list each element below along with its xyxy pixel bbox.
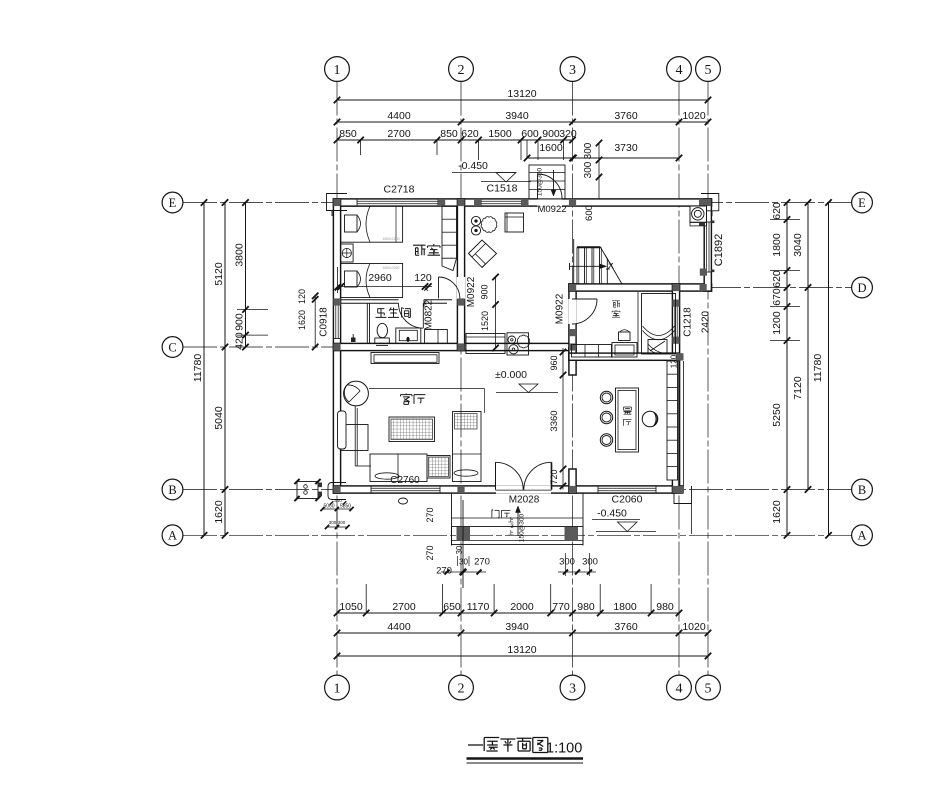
svg-text:300: 300 xyxy=(338,520,346,525)
svg-text:A: A xyxy=(168,529,177,543)
svg-text:770: 770 xyxy=(552,601,570,613)
svg-text:3940: 3940 xyxy=(505,621,529,633)
svg-text:1620: 1620 xyxy=(213,500,225,524)
svg-text:C2060: C2060 xyxy=(612,494,643,506)
svg-text:980: 980 xyxy=(577,601,595,613)
svg-text:900: 900 xyxy=(480,284,490,299)
svg-text:1020: 1020 xyxy=(682,110,706,122)
svg-text:C2718: C2718 xyxy=(384,184,415,196)
svg-text:C: C xyxy=(168,340,176,354)
svg-text:620: 620 xyxy=(771,270,783,288)
svg-text:A: A xyxy=(857,529,866,543)
svg-text:3040: 3040 xyxy=(792,233,804,257)
svg-text:1050: 1050 xyxy=(339,601,363,613)
svg-text:300: 300 xyxy=(583,161,594,178)
svg-text:3: 3 xyxy=(569,63,576,78)
svg-text:5120: 5120 xyxy=(213,262,225,286)
svg-text:600: 600 xyxy=(584,205,595,221)
svg-text:1500: 1500 xyxy=(488,128,512,140)
svg-text:1500×2000: 1500×2000 xyxy=(382,266,399,270)
svg-text:3760: 3760 xyxy=(614,621,638,633)
svg-text:M0922: M0922 xyxy=(537,204,566,215)
svg-text:4: 4 xyxy=(676,63,683,78)
svg-text:980: 980 xyxy=(656,601,674,613)
svg-text:2: 2 xyxy=(458,681,465,696)
svg-text:5060: 5060 xyxy=(323,504,334,510)
svg-text:850: 850 xyxy=(440,128,458,140)
svg-text:B: B xyxy=(858,483,866,497)
svg-text:3: 3 xyxy=(569,681,576,696)
svg-text:1620: 1620 xyxy=(771,500,783,524)
svg-text:300: 300 xyxy=(329,520,337,525)
svg-text:850: 850 xyxy=(339,128,357,140)
svg-text:2000: 2000 xyxy=(510,601,534,613)
svg-text:D: D xyxy=(857,281,866,295)
svg-text:2: 2 xyxy=(458,63,465,78)
svg-text:M0922: M0922 xyxy=(555,293,566,324)
svg-text:E: E xyxy=(858,196,866,210)
svg-text:4400: 4400 xyxy=(387,110,411,122)
svg-text:320: 320 xyxy=(559,128,577,140)
svg-text:M0822: M0822 xyxy=(424,299,435,330)
svg-text:5: 5 xyxy=(705,681,712,696)
svg-text:C0918: C0918 xyxy=(319,307,330,337)
svg-text:1170: 1170 xyxy=(467,601,490,613)
svg-text:1:100: 1:100 xyxy=(546,741,582,757)
svg-text:C2760: C2760 xyxy=(390,475,420,486)
svg-text:620: 620 xyxy=(461,128,479,140)
svg-text:650: 650 xyxy=(443,601,461,613)
svg-text:M0922: M0922 xyxy=(466,276,477,307)
svg-text:B: B xyxy=(168,483,176,497)
svg-text:270: 270 xyxy=(436,566,452,577)
svg-text:600: 600 xyxy=(521,128,539,140)
svg-text:4400: 4400 xyxy=(387,621,411,633)
svg-text:E: E xyxy=(169,196,177,210)
svg-text:5040: 5040 xyxy=(213,406,225,430)
svg-text:300: 300 xyxy=(582,557,598,568)
svg-text:300: 300 xyxy=(583,142,594,159)
svg-text:1020: 1020 xyxy=(682,621,706,633)
svg-text:960: 960 xyxy=(549,355,559,370)
svg-text:670: 670 xyxy=(771,288,783,306)
svg-text:11780: 11780 xyxy=(192,354,204,383)
svg-text:1620: 1620 xyxy=(297,310,307,330)
svg-text:2700: 2700 xyxy=(392,601,416,613)
svg-text:30: 30 xyxy=(459,558,468,567)
svg-text:M2028: M2028 xyxy=(509,495,540,506)
svg-text:120: 120 xyxy=(297,289,307,304)
svg-text:270: 270 xyxy=(474,557,490,568)
svg-text:C1892: C1892 xyxy=(713,234,725,266)
svg-text:11780: 11780 xyxy=(812,354,824,383)
svg-text:900: 900 xyxy=(234,313,246,331)
svg-text:-0.450: -0.450 xyxy=(597,508,627,520)
svg-text:3730: 3730 xyxy=(614,142,638,154)
svg-text:1520: 1520 xyxy=(480,311,490,331)
svg-text:300: 300 xyxy=(559,557,575,568)
svg-text:440: 440 xyxy=(334,498,342,503)
svg-text:620: 620 xyxy=(771,202,783,220)
svg-text:±0.000: ±0.000 xyxy=(495,369,527,381)
svg-text:2420: 2420 xyxy=(701,310,712,333)
svg-text:3800: 3800 xyxy=(234,243,246,267)
svg-text:270: 270 xyxy=(425,545,435,560)
svg-text:270: 270 xyxy=(425,507,435,522)
svg-text:1500×2000: 1500×2000 xyxy=(382,237,399,241)
svg-text:720: 720 xyxy=(549,469,559,484)
svg-text:2960: 2960 xyxy=(368,272,392,284)
svg-text:7120: 7120 xyxy=(792,376,804,400)
svg-text:3940: 3940 xyxy=(505,110,529,122)
svg-text:C1218: C1218 xyxy=(683,307,694,337)
svg-text:1800: 1800 xyxy=(613,601,637,613)
svg-text:5: 5 xyxy=(705,63,712,78)
svg-text:120: 120 xyxy=(414,272,432,284)
svg-text:120: 120 xyxy=(670,354,679,368)
svg-text:1800: 1800 xyxy=(771,233,783,257)
svg-text:13120: 13120 xyxy=(507,644,536,656)
svg-text:C1518: C1518 xyxy=(487,183,518,195)
svg-text:3760: 3760 xyxy=(614,110,638,122)
svg-text:5850: 5850 xyxy=(340,504,351,510)
svg-text:1: 1 xyxy=(334,681,341,696)
svg-text:30: 30 xyxy=(455,545,464,554)
svg-text:-0.450: -0.450 xyxy=(458,160,488,172)
svg-text:900: 900 xyxy=(542,128,560,140)
svg-text:150@300: 150@300 xyxy=(519,513,526,542)
svg-text:1200: 1200 xyxy=(771,311,783,335)
svg-text:5250: 5250 xyxy=(771,403,783,427)
svg-text:1600: 1600 xyxy=(539,142,563,154)
svg-text:1: 1 xyxy=(334,63,341,78)
svg-text:3360: 3360 xyxy=(549,410,560,431)
svg-text:4: 4 xyxy=(676,681,683,696)
svg-text:13120: 13120 xyxy=(507,88,536,100)
svg-text:2700: 2700 xyxy=(387,128,411,140)
